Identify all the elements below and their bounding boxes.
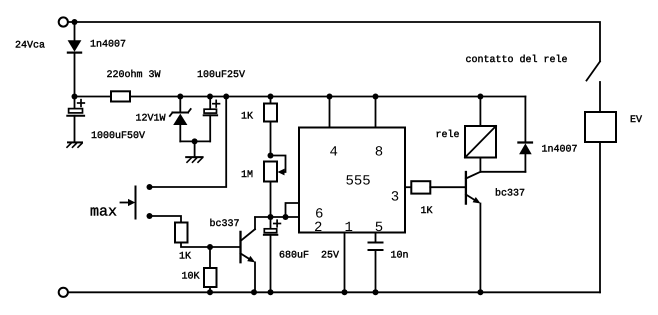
wire contatto lower: [599, 82, 601, 112]
svg-text:10n: 10n: [391, 251, 409, 262]
svg-text:24Vca: 24Vca: [15, 41, 45, 52]
capacitor C3 680uF: [264, 217, 281, 292]
pin 3 wire: [405, 186, 411, 188]
svg-text:12V1W: 12V1W: [136, 114, 166, 125]
zener D3 12V1W: [170, 97, 191, 142]
terminal top-left: [59, 17, 68, 26]
svg-text:bc337: bc337: [495, 188, 525, 200]
resistor R3 10K: [204, 268, 217, 287]
node C2 top: [207, 94, 213, 100]
svg-text:8: 8: [375, 145, 383, 161]
svg-text:220ohm 3W: 220ohm 3W: [107, 69, 161, 81]
load EV box: [585, 112, 616, 142]
node C3 bottom: [268, 289, 274, 295]
svg-text:1M: 1M: [241, 170, 253, 181]
potentiometer R5 1M: [264, 156, 286, 218]
resistor R6 1K: [411, 181, 430, 193]
switch max actuator arrow: [121, 199, 136, 206]
svg-text:1000uF50V: 1000uF50V: [91, 131, 145, 142]
node pot wiper tie: [268, 153, 274, 159]
capacitor C1 1000uF50V: [67, 97, 84, 142]
transistor Q1 bc337: [241, 217, 256, 292]
node switch top contact: [147, 184, 153, 190]
wire: [74, 22, 76, 40]
node pin1 rail: [342, 289, 348, 295]
node Q1 emitter on rail: [251, 289, 257, 295]
resistor R1 220ohm: [111, 91, 130, 101]
node pin6 hook: [283, 214, 289, 220]
wire relay bottom: [479, 158, 481, 172]
capacitor C2 100uF25V: [204, 97, 220, 142]
wire junction line pin2: [255, 216, 299, 218]
svg-text:4: 4: [330, 145, 338, 161]
wire EV to bottom rail: [599, 142, 601, 292]
svg-text:3: 3: [391, 190, 399, 206]
wire bottom rail: [68, 291, 601, 293]
pin 5 wire: [375, 233, 377, 243]
pin 4 wire: [329, 97, 331, 128]
ground: [186, 157, 202, 162]
svg-text:1: 1: [345, 220, 353, 236]
switch max bar: [135, 187, 137, 219]
pin 1 wire: [344, 233, 346, 293]
node junction top: [72, 19, 78, 25]
diode D2 1n4007 flyback: [480, 97, 532, 172]
resistor R4 1K: [264, 97, 277, 156]
resistor R2 1K: [175, 223, 188, 243]
wire mid rail: [75, 96, 526, 98]
node max branch: [223, 94, 229, 100]
svg-text:contatto del rele: contatto del rele: [466, 54, 568, 66]
svg-text:max: max: [90, 204, 117, 221]
pin 8 wire: [375, 97, 377, 128]
relay K1: [465, 126, 496, 158]
svg-text:EV: EV: [630, 115, 642, 126]
node relay top: [477, 94, 483, 100]
svg-text:100uF25V: 100uF25V: [197, 70, 245, 81]
wire R2 to base node: [181, 243, 240, 248]
node: [207, 289, 213, 295]
wire to R3: [209, 247, 211, 268]
svg-text:1K: 1K: [421, 206, 433, 217]
capacitor C4 10n: [369, 243, 383, 293]
wire R3 to rail: [209, 287, 211, 292]
svg-text:1n4007: 1n4007: [90, 40, 126, 51]
node zener top: [177, 94, 183, 100]
ground: [67, 142, 82, 147]
svg-text:2: 2: [314, 220, 322, 236]
svg-text:1n4007: 1n4007: [542, 145, 578, 156]
node: [192, 138, 198, 144]
terminal bottom-left: [59, 288, 68, 297]
node pin4: [327, 94, 333, 100]
svg-text:555: 555: [346, 174, 371, 190]
diode D1 1n4007: [68, 40, 82, 96]
node pot/cap: [268, 214, 274, 220]
wire to ground: [194, 141, 196, 157]
wire max branch: [150, 97, 227, 188]
svg-text:680uF 25V: 680uF 25V: [279, 251, 339, 262]
svg-text:1K: 1K: [241, 112, 253, 123]
node R4 top: [268, 94, 274, 100]
wire to R2: [150, 216, 182, 223]
svg-text:1K: 1K: [179, 252, 191, 263]
svg-text:rele: rele: [436, 129, 460, 141]
wire zener/cap bottom: [180, 140, 210, 142]
node base Q1: [207, 244, 213, 250]
svg-text:10K: 10K: [182, 272, 200, 283]
node: [72, 94, 78, 100]
node switch bottom contact: [147, 213, 153, 219]
switch contatto blade: [587, 62, 601, 81]
IC U1 555: [299, 128, 405, 233]
node C4 rail: [373, 289, 379, 295]
node pin8: [373, 94, 379, 100]
wire R6 to Q2 base: [430, 186, 465, 188]
svg-text:bc337: bc337: [210, 218, 240, 230]
wire pin6 hook: [286, 203, 300, 217]
wire relay top: [479, 97, 481, 127]
wire top rail: [68, 22, 600, 61]
node Q2 emitter rail: [477, 289, 483, 295]
transistor Q2 bc337: [466, 172, 481, 292]
